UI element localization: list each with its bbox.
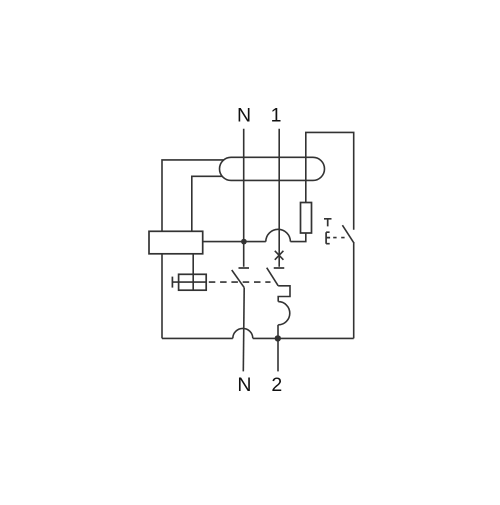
wire toroid lower tap to trip relay bbox=[192, 176, 223, 231]
mechanical linkage dashed bbox=[209, 281, 271, 283]
current transformer toroid W1 bbox=[220, 157, 325, 180]
test button stem bbox=[172, 281, 206, 283]
wire line 1 (top terminal to switch contact) bbox=[278, 129, 280, 267]
wire N lower (switch to bottom terminal) bbox=[242, 288, 245, 372]
switch contact N pole fixed contact bar bbox=[239, 267, 250, 269]
wire hop over N line bbox=[233, 328, 253, 338]
wire relay bottom left to bottom rail bbox=[161, 254, 163, 339]
wire line 2 lower (release to bottom terminal) bbox=[277, 325, 279, 372]
wire bottom rail right bbox=[253, 337, 354, 339]
wire toroid upper tap to trip relay bbox=[162, 160, 224, 231]
label E with linkage bbox=[326, 232, 330, 244]
wire hop over line 1 bbox=[266, 229, 291, 241]
node junction on line 2 bbox=[275, 335, 281, 341]
trip cross X on line 1 bbox=[275, 251, 284, 260]
wire test switch to bottom rail bbox=[353, 243, 355, 338]
wire resistor bottom to hop bbox=[290, 233, 305, 242]
svg-text:N: N bbox=[237, 105, 251, 127]
svg-text:1: 1 bbox=[271, 105, 282, 127]
trip relay coil K1 bbox=[149, 231, 203, 254]
wire relay to node on N bbox=[203, 241, 266, 243]
wire bottom rail left bbox=[162, 337, 233, 339]
test button actuator bar bbox=[171, 277, 173, 288]
label T test bbox=[324, 219, 332, 227]
wire relay bottom to test button box bbox=[192, 254, 194, 290]
svg-text:N: N bbox=[237, 374, 251, 396]
switch contact L pole blade bbox=[267, 268, 279, 286]
resistor R1 (test resistor) bbox=[301, 203, 312, 234]
switch contact L pole fixed contact bar bbox=[274, 267, 285, 269]
wire neutral line N (top terminal to switch contact) bbox=[243, 129, 245, 267]
test switch linkage dashed bbox=[333, 237, 348, 239]
svg-text:2: 2 bbox=[271, 374, 282, 396]
node junction on N line bbox=[241, 239, 247, 245]
test button box S1 bbox=[179, 274, 207, 290]
overcurrent release step bbox=[278, 286, 290, 302]
switch contact N pole blade bbox=[232, 270, 244, 288]
test switch blade bbox=[342, 225, 354, 243]
overcurrent release coil arc bbox=[278, 302, 290, 325]
wire test branch top (resistor to test switch) bbox=[306, 132, 354, 229]
